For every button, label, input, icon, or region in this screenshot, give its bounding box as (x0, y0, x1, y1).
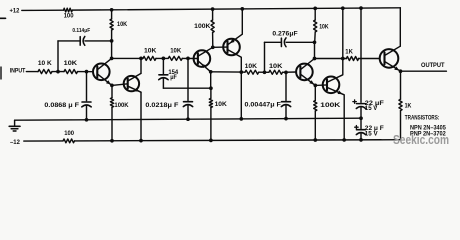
svg-text:15 V: 15 V (365, 105, 378, 112)
svg-text:10 K: 10 K (38, 60, 52, 67)
svg-text:10K: 10K (245, 63, 258, 70)
svg-text:0.0218μ F: 0.0218μ F (145, 103, 178, 109)
svg-text:TRANSISTORS:: TRANSISTORS: (405, 114, 440, 121)
svg-text:100K: 100K (320, 102, 341, 109)
svg-text:100K: 100K (114, 102, 129, 109)
svg-text:10K: 10K (64, 60, 78, 67)
svg-text:100: 100 (64, 12, 74, 19)
svg-text:0.00447μ F: 0.00447μ F (245, 103, 282, 109)
svg-text:10K: 10K (117, 22, 128, 28)
svg-text:Seekic.com: Seekic.com (393, 133, 449, 147)
svg-text:10K: 10K (269, 63, 283, 70)
svg-text:10K: 10K (319, 24, 329, 31)
svg-text:INPUT: INPUT (10, 68, 26, 75)
svg-text:OUTPUT: OUTPUT (421, 62, 445, 69)
svg-text:–12: –12 (10, 139, 20, 146)
svg-text:10K: 10K (144, 48, 157, 54)
svg-text:15 V: 15 V (365, 130, 379, 137)
svg-text:10K: 10K (170, 48, 182, 54)
svg-text:100K: 100K (194, 23, 211, 30)
svg-text:1K: 1K (345, 48, 353, 55)
svg-text:0.276μF: 0.276μF (272, 31, 298, 37)
svg-text:10K: 10K (215, 101, 228, 108)
svg-text:100: 100 (64, 130, 74, 137)
svg-text:μF: μF (170, 75, 177, 81)
svg-text:+12: +12 (10, 7, 20, 14)
svg-text:1K: 1K (405, 103, 412, 109)
svg-text:0.114μF: 0.114μF (72, 28, 90, 34)
svg-text:0.0868 μ F: 0.0868 μ F (44, 103, 79, 109)
